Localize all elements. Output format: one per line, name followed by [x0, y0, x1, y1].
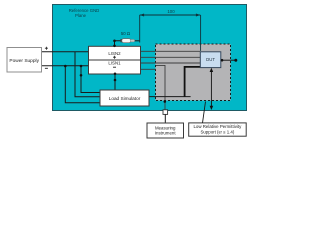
node junction dot LISN1 bottom [114, 73, 117, 76]
svg-text:Load Simulator: Load Simulator [109, 96, 141, 101]
wire LISN output 3 to DUT [141, 62, 201, 64]
node junction dot V1 on minus wire [64, 65, 67, 68]
wire PS- to LISN [42, 65, 89, 67]
wire LISN divider [89, 59, 141, 61]
measuring instrument bulkhead square [163, 110, 168, 115]
measuring instrument box [147, 123, 184, 138]
svg-text:Instrument: Instrument [155, 131, 177, 136]
wire LISN output 4 to measuring line [141, 68, 156, 70]
wire dimension extension right [200, 15, 202, 51]
node junction dot stub lower [114, 79, 117, 82]
wire square to measuring instrument [164, 114, 166, 123]
dimension line 100 [140, 14, 201, 16]
wire leader to support [203, 102, 206, 123]
wire V1 from - wire down to load simulator [65, 66, 100, 103]
wire V3 to load simulator [81, 66, 100, 93]
node terminal dot antenna end [234, 59, 237, 62]
node junction dot V3 on minus wire [80, 65, 83, 68]
resistor 50 ohm coaxial termination [120, 39, 122, 42]
svg-text:50 Ω: 50 Ω [121, 31, 131, 36]
wire stub above LISN2 to 50 ohm load [115, 41, 123, 47]
node - label at power supply [45, 67, 48, 69]
wire thick ground strap from DUT [185, 67, 200, 97]
wire V2 from + wire down to load simulator [75, 52, 100, 97]
node junction dot LISN2 top [113, 45, 116, 48]
support height double arrow [210, 70, 212, 108]
svg-text:LISN1: LISN1 [108, 61, 121, 66]
low relative permittivity support label box [189, 123, 247, 136]
load simulator box [100, 90, 149, 106]
wire DUT antenna output [222, 59, 236, 61]
power supply box [7, 48, 42, 73]
LISN box [89, 46, 141, 74]
node junction dot V3 lower [80, 74, 83, 77]
wire from load to dimension extension [132, 40, 140, 42]
reference GND plane panel [53, 5, 247, 111]
support block (low relative permittivity support) [156, 44, 231, 101]
node junction dot below support box [164, 100, 167, 103]
wire dimension extension left [139, 15, 141, 43]
svg-text:100: 100 [167, 9, 175, 14]
node + label at power supply [45, 47, 48, 50]
node junction dot stub top corner [113, 40, 116, 43]
svg-text:DUT: DUT [206, 57, 215, 62]
wire stub below LISN1 to load simulator [114, 74, 116, 90]
wire LISN output 2 to DUT [141, 56, 201, 58]
node junction dot DUT right [221, 59, 224, 62]
wire PS+ to LISN [42, 51, 89, 53]
svg-text:Plane: Plane [75, 13, 87, 18]
svg-text:Support (εr ≤ 1.4): Support (εr ≤ 1.4) [200, 129, 234, 134]
DUT box [200, 52, 221, 68]
wire load simulator to support bottom run [149, 96, 191, 98]
wire support inner run to bulkhead [156, 65, 165, 109]
svg-text:LISN2: LISN2 [108, 51, 121, 56]
wire LISN output 1 to DUT [141, 50, 201, 52]
svg-text:Power Supply: Power Supply [9, 58, 39, 64]
